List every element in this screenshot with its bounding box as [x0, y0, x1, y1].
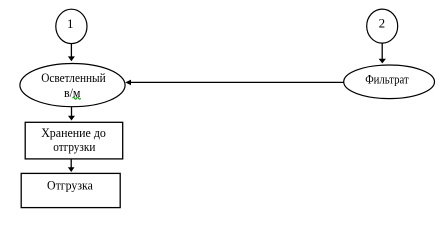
- wire: circle 1 to ellipse: [68, 44, 75, 62]
- svg-text:Фильтрат: Фильтрат: [365, 71, 409, 86]
- wire: ellipse to rect 1: [68, 107, 75, 121]
- wire: circle 2 to Фильтрат: [379, 43, 386, 63]
- svg-text:2: 2: [379, 16, 386, 31]
- svg-text:Осветленный: Осветленный: [41, 70, 106, 85]
- svg-text:1: 1: [67, 16, 74, 31]
- node: Хранение до отгрузки rect: [25, 122, 123, 159]
- node 1 circle: [56, 9, 87, 43]
- node 2 circle: [367, 9, 398, 43]
- svg-text:Хранение до: Хранение до: [41, 125, 106, 140]
- wire: Фильтрат to Осветленный (horizontal arrow): [125, 80, 343, 86]
- spellcheck squiggle: [73, 97, 81, 99]
- node: Отгрузка rect: [21, 173, 120, 207]
- svg-text:отгрузки: отгрузки: [53, 139, 95, 154]
- wire: rect 1 to rect 2: [68, 159, 75, 172]
- node: Осветленный в/м ellipse: [20, 64, 125, 107]
- svg-text:Отгрузка: Отгрузка: [47, 178, 93, 193]
- node: Фильтрат ellipse: [344, 65, 435, 99]
